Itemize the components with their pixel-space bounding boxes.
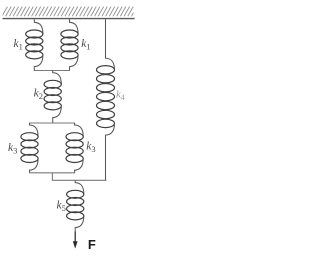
bar joining k1 pair [34,70,70,72]
svg-text:k3: k3 [8,142,17,155]
spring k3 left [21,123,38,173]
spring k3 right [66,123,83,173]
bar joining k4 and k5 node [52,179,107,181]
spring k4 [97,19,115,180]
svg-text:k1: k1 [14,38,23,51]
ceiling line [3,18,135,20]
svg-text:k5: k5 [57,200,66,213]
spring k1 right [61,19,78,70]
spring system diagram [0,0,153,260]
force arrow head [73,241,78,248]
svg-text:F: F [88,237,96,252]
svg-text:k3: k3 [86,140,95,153]
svg-text:k2: k2 [34,88,43,101]
force arrow shaft [74,232,76,244]
spring k2 [44,71,61,124]
spring k1 left [26,19,43,70]
bar bottom of k3 pair [29,172,75,174]
bar top of k3 pair [29,122,75,124]
svg-text:k4: k4 [116,89,125,102]
wire drop from k3 bar [51,173,53,181]
spring k5 [67,180,84,242]
svg-text:k1: k1 [81,38,90,51]
